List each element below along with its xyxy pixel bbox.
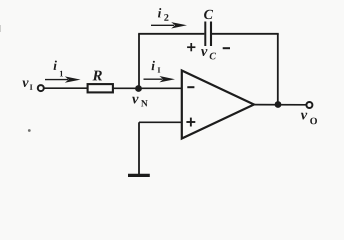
label i2: subscript 2 [164, 14, 168, 21]
output terminal vO [306, 102, 312, 108]
op-amp inverting input minus [187, 86, 194, 88]
capacitor C plates [204, 22, 206, 47]
wire: right vertical down to output [277, 34, 279, 105]
label iI: i [152, 61, 155, 70]
label vO: subscript O [310, 118, 317, 125]
label vC: v [201, 49, 207, 56]
input terminal vI [38, 85, 44, 91]
op-amp non-inverting input plus [186, 118, 195, 127]
label vN: subscript N [141, 100, 148, 106]
capacitor polarity minus [223, 47, 230, 49]
label vI: v [22, 80, 28, 87]
current arrow iI [144, 76, 176, 82]
wire: non-inverting input [139, 121, 182, 123]
scan edge artifact [0, 25, 2, 32]
label vO: v [301, 113, 307, 120]
label C [204, 10, 213, 19]
wire: top feedback left of capacitor [138, 33, 204, 35]
node vN junction dot [135, 85, 142, 92]
label R [92, 71, 101, 81]
label i2: i [158, 8, 161, 17]
wire: down to ground [138, 122, 140, 175]
resistor R body [88, 84, 113, 92]
label i1: subscript 1 [60, 71, 63, 77]
op-amp U1 triangle [182, 71, 254, 139]
label iI: subscript I [158, 67, 161, 72]
wire: input from terminal to resistor [45, 87, 89, 89]
current arrow i1 [45, 76, 81, 82]
capacitor polarity plus [187, 43, 195, 51]
output node junction dot [275, 101, 282, 108]
current arrow i2 [151, 22, 187, 28]
scan speck artifact [28, 129, 31, 132]
wire: resistor to inverting input of op-amp [114, 87, 182, 89]
label vN: v [132, 97, 138, 104]
wire: op-amp output to terminal [254, 104, 306, 106]
ground [128, 174, 150, 177]
label vI: subscript I [30, 84, 33, 89]
label vC: subscript C [210, 53, 216, 60]
wire: top feedback right of capacitor [212, 33, 279, 35]
wire: vertical from node vN up to feedback [138, 34, 140, 89]
label i1: i [54, 61, 57, 70]
